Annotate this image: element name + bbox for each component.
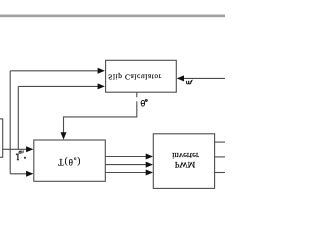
wire T-block to PWM a [105,156,148,158]
label T(theta-e) (flipped) [58,156,81,167]
wire iqs* to T-block [10,173,28,175]
slip calculator box [106,60,177,92]
wire ids* from left box to T-block [3,148,29,150]
arrowhead into PWM c [146,170,153,176]
wire wr input [182,77,225,79]
wire T-block to PWM c [105,172,148,174]
arrowhead into T-block left lower [26,171,33,177]
wire PWM output a [215,141,225,143]
PWM inverter box [153,134,214,189]
label theta-e (flipped, drawn) [141,99,147,106]
wire ids* to slip calculator [18,85,99,87]
wire PWM output b [215,156,225,158]
arrowhead into slip calculator bottom [98,83,105,89]
svg-text:T(θe): T(θe) [58,156,81,167]
arrowhead into T-block left upper [26,146,33,152]
top rule (gray separator line) [0,15,225,17]
svg-text:Slip Calculator: Slip Calculator [108,73,162,82]
arrowhead wr into slip calculator right [177,75,184,81]
arrowhead into PWM b [146,162,153,168]
left box (speed controller, cut off at image edge) [0,119,3,157]
label PWM (flipped) [175,160,196,170]
label Slip Calculator (flipped) [108,73,162,82]
arrowhead theta-e into T-block top [61,132,67,139]
wire iqs* vertical trunk [9,71,11,174]
label omega-r (flipped, drawn) [187,80,193,84]
label inverter (flipped) [172,151,199,161]
label Ids-star (flipped, drawn) [17,150,24,159]
arrowhead into PWM a [146,154,153,160]
wire iqs* to slip calculator [10,70,99,72]
wire ids* vertical trunk [17,86,19,149]
wire PWM output c [215,172,225,174]
wire theta-e from slip calculator to T-block [64,92,137,134]
wire T-block to PWM b [105,164,148,166]
svg-text:inverter: inverter [172,151,199,161]
T(theta-e) transformation box [34,140,106,181]
arrowhead into slip calculator top [98,68,105,74]
label Ids-star blob and star-dot [16,154,17,156]
